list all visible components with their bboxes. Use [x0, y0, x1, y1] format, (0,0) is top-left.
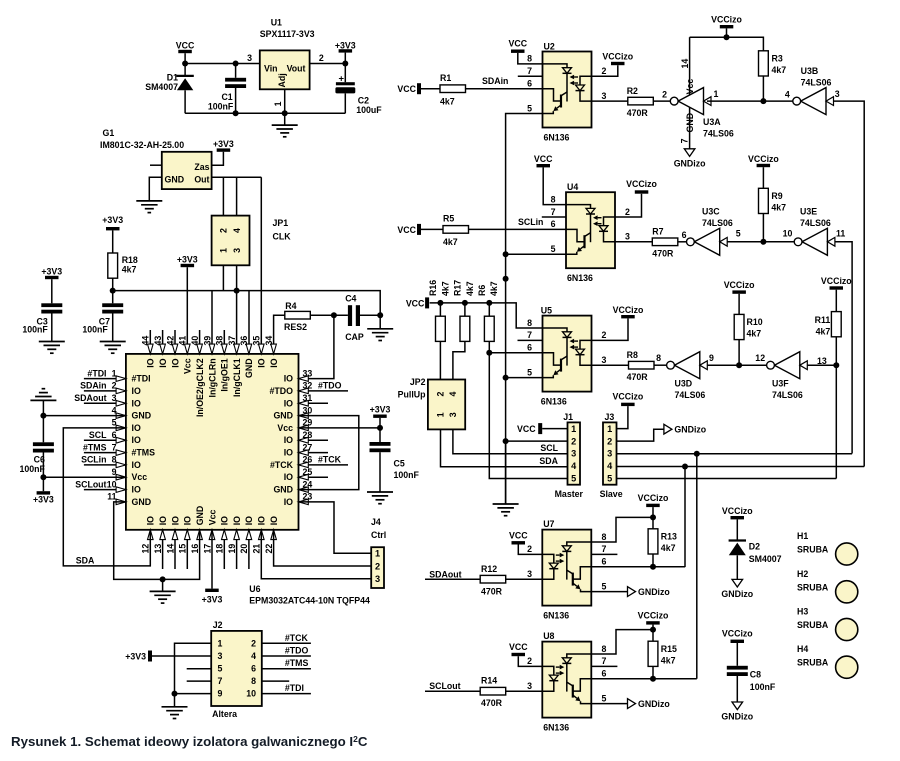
svg-text:19: 19: [227, 544, 237, 554]
svg-text:2: 2: [571, 436, 576, 446]
svg-text:R3: R3: [772, 54, 783, 64]
pin 12 U6 bottom: [148, 530, 154, 540]
svg-text:4k7: 4k7: [661, 655, 676, 665]
svg-text:8: 8: [527, 54, 532, 64]
svg-text:SPX1117-3V3: SPX1117-3V3: [260, 29, 315, 39]
svg-text:3: 3: [602, 355, 607, 365]
svg-text:13: 13: [817, 356, 827, 366]
svg-text:42: 42: [165, 336, 175, 346]
svg-text:1: 1: [714, 89, 719, 99]
wire U6 pin 9 Vcc to C6 bottom: [43, 476, 126, 478]
svg-text:H1: H1: [797, 531, 808, 541]
wire SDAout to R12: [425, 578, 480, 580]
GNDizo arrow at U8 pin 5: [628, 699, 636, 709]
svg-text:VCC: VCC: [509, 531, 528, 541]
svg-text:27: 27: [303, 442, 313, 452]
wire clock long line to U6 pin 35: [260, 177, 262, 354]
svg-text:24: 24: [303, 479, 313, 489]
svg-text:SRUBA: SRUBA: [797, 658, 829, 668]
svg-text:2: 2: [602, 66, 607, 76]
svg-text:1: 1: [375, 549, 380, 559]
svg-text:GND: GND: [132, 497, 152, 507]
pin 30 U6 right: [299, 413, 309, 419]
svg-text:R5: R5: [443, 214, 454, 224]
svg-text:2: 2: [112, 381, 117, 391]
wire R10 to node: [738, 340, 740, 366]
svg-text:31: 31: [303, 393, 313, 403]
svg-text:12: 12: [755, 353, 765, 363]
node J2 ground: [172, 691, 178, 697]
pin 10 U6 left: [84, 489, 126, 491]
svg-text:32: 32: [303, 381, 313, 391]
svg-text:100nF: 100nF: [394, 470, 420, 480]
svg-text:20: 20: [239, 544, 249, 554]
pin 28 U6 right: [299, 439, 329, 441]
wire R12 to U7 pin 3: [506, 578, 543, 580]
svg-text:25: 25: [303, 467, 313, 477]
svg-text:R15: R15: [661, 644, 677, 654]
svg-text:GND: GND: [244, 358, 254, 378]
svg-text:SCLin: SCLin: [518, 217, 543, 227]
svg-text:7: 7: [680, 138, 690, 143]
svg-text:GNDizo: GNDizo: [721, 589, 753, 599]
svg-text:IO: IO: [170, 358, 180, 367]
svg-text:1: 1: [436, 412, 446, 417]
svg-text:Vcc: Vcc: [132, 472, 148, 482]
svg-text:21: 21: [252, 544, 262, 554]
resistor R3 4k7: [759, 51, 769, 76]
svg-text:VCCizo: VCCizo: [722, 629, 753, 639]
svg-text:R16: R16: [428, 280, 438, 296]
G1 GND pin wire: [149, 177, 162, 201]
svg-text:4k7: 4k7: [816, 327, 831, 337]
pin 22 U6 bottom: [271, 530, 277, 540]
svg-text:VCCizo: VCCizo: [638, 493, 669, 503]
wire R7 to U3C output: [678, 241, 687, 243]
node C6 top: [40, 413, 46, 419]
svg-text:GND: GND: [273, 411, 293, 421]
wire U3C input to U3E output: [727, 241, 794, 243]
svg-text:VCCizo: VCCizo: [711, 14, 742, 24]
pin 29 U6 right: [299, 425, 309, 431]
svg-text:74LS06: 74LS06: [800, 218, 831, 228]
svg-text:IO: IO: [158, 358, 168, 367]
svg-text:IO: IO: [257, 516, 267, 525]
svg-text:#TMS: #TMS: [285, 658, 309, 668]
wire U5 pin 3 to R8: [592, 364, 629, 366]
svg-text:7: 7: [602, 544, 607, 554]
capacitor C2 100uF electrolytic: [344, 64, 346, 83]
svg-text:VCC: VCC: [534, 154, 553, 164]
capacitor C5 100nF: [370, 442, 391, 446]
svg-text:8: 8: [602, 532, 607, 542]
wire R8 to U3D output: [654, 364, 667, 366]
pin 27 U6 right: [299, 452, 329, 454]
diode D1 SM4007: [184, 64, 186, 76]
pin 43 U6 top: [162, 330, 164, 354]
svg-text:4k7: 4k7: [747, 329, 762, 339]
svg-text:30: 30: [303, 405, 313, 415]
svg-text:IO: IO: [232, 516, 242, 525]
resistor R15 4k7: [648, 641, 658, 666]
svg-text:+3V3: +3V3: [41, 267, 62, 277]
wire G1 Zas to +3V3: [212, 152, 224, 165]
wire U5 pin 2 to VCCizo: [592, 318, 629, 340]
pin 35 U6 top: [259, 344, 265, 354]
svg-text:5: 5: [602, 693, 607, 703]
svg-text:GND: GND: [132, 411, 152, 421]
svg-text:Vcc: Vcc: [277, 423, 293, 433]
svg-text:SCLin: SCLin: [81, 455, 106, 465]
svg-text:CAP: CAP: [345, 332, 364, 342]
svg-text:VCCizo: VCCizo: [626, 179, 657, 189]
svg-text:3: 3: [375, 574, 380, 584]
wire R15 to U8 pin 6 node: [652, 666, 654, 678]
wire U8 pin 7 stub: [591, 665, 617, 667]
wire U2 pin 5 to isolated-side ground line: [506, 114, 543, 505]
wire J3 pin 3 to U3E line: [617, 453, 853, 455]
wire R11 to node: [835, 337, 837, 365]
wire VCCizo rail to R3: [690, 37, 764, 51]
pin 25 U6 right: [299, 476, 329, 478]
resistor R11 4k7: [831, 312, 841, 337]
svg-text:GNDizo: GNDizo: [674, 424, 706, 434]
svg-text:Vcc: Vcc: [183, 358, 193, 374]
svg-text:#TDO: #TDO: [285, 646, 309, 656]
capacitor C3 100nF: [41, 303, 62, 307]
svg-text:100uF: 100uF: [356, 105, 382, 115]
svg-text:VCCizo: VCCizo: [748, 154, 779, 164]
svg-text:R18: R18: [122, 255, 138, 265]
svg-text:SM4007: SM4007: [145, 82, 178, 92]
svg-text:R6: R6: [477, 285, 487, 296]
svg-text:IO: IO: [284, 448, 293, 458]
wire U2 pin 7 stub: [518, 75, 543, 77]
svg-text:C2: C2: [358, 95, 369, 105]
wire VCC to J1 pin 1: [542, 428, 567, 430]
GNDizo arrow under C8: [732, 702, 743, 710]
ground symbol under J2: [174, 694, 176, 707]
wire J3 pin 5 to U3F line: [617, 478, 837, 480]
svg-text:9: 9: [709, 353, 714, 363]
svg-text:3: 3: [625, 232, 630, 242]
svg-text:+3V3: +3V3: [213, 139, 234, 149]
wire isolated ground line to ground symbol: [505, 441, 507, 504]
svg-text:100nF: 100nF: [19, 464, 45, 474]
wire SCLout to R14: [425, 690, 480, 692]
svg-text:7: 7: [112, 442, 117, 452]
svg-text:470R: 470R: [652, 249, 674, 259]
svg-text:#TCK: #TCK: [285, 633, 309, 643]
svg-text:J1: J1: [563, 412, 573, 422]
svg-text:1: 1: [219, 248, 229, 253]
node J3 pin 4 branch: [682, 464, 688, 470]
svg-text:23: 23: [303, 492, 313, 502]
svg-text:D2: D2: [749, 542, 760, 552]
wire U6 pin 29 Vcc to C5 node: [299, 427, 381, 429]
pin 34 U6 top: [271, 344, 277, 354]
svg-text:R4: R4: [285, 301, 296, 311]
svg-text:+3V3: +3V3: [177, 254, 198, 264]
wire U7 pin 5 to GNDizo: [591, 591, 627, 593]
svg-text:29: 29: [303, 418, 313, 428]
svg-text:#TMS: #TMS: [83, 442, 107, 452]
svg-text:IO: IO: [284, 398, 293, 408]
svg-text:3: 3: [218, 651, 223, 661]
svg-text:74LS06: 74LS06: [703, 129, 734, 139]
svg-text:35: 35: [252, 336, 262, 346]
ground rail under U1: [185, 112, 345, 114]
svg-text:28: 28: [303, 430, 313, 440]
svg-text:IO: IO: [269, 358, 279, 367]
wire U8 pin 5 to GNDizo: [591, 703, 627, 705]
svg-text:#TDI: #TDI: [132, 374, 151, 384]
wire U3D input to U3F output: [707, 364, 766, 366]
svg-text:U7: U7: [543, 519, 554, 529]
svg-text:#TDI: #TDI: [285, 683, 304, 693]
svg-text:Altera: Altera: [212, 709, 237, 719]
resistor R13 4k7: [648, 529, 658, 554]
svg-text:2: 2: [219, 228, 229, 233]
wire J2 pin 6 #TMS: [262, 668, 311, 670]
pin 23 U6 right: [299, 499, 309, 505]
svg-text:4k7: 4k7: [771, 203, 786, 213]
wire U5 pin 5 to ground line: [506, 377, 543, 379]
svg-text:6N136: 6N136: [544, 133, 570, 143]
node U4 pin 5: [503, 251, 509, 257]
pin 40 U6 top: [199, 330, 201, 354]
svg-text:3: 3: [527, 681, 532, 691]
wire U6 pin 11 GND down to ground row: [114, 502, 200, 580]
wire U2 pin 3 to R2: [592, 100, 628, 102]
svg-text:2: 2: [527, 544, 532, 554]
svg-text:33: 33: [303, 368, 313, 378]
svg-text:VCCizo: VCCizo: [722, 506, 753, 516]
svg-text:R2: R2: [627, 86, 638, 96]
pin 15 U6 bottom: [186, 530, 188, 569]
pin 6 U6 left: [84, 439, 126, 441]
node J3 pin 3 branch: [694, 451, 700, 457]
node Vcc/C5: [377, 425, 383, 431]
inverter U3F 74LS06: [774, 352, 799, 379]
svg-text:4: 4: [448, 391, 458, 396]
GNDizo arrow at U7 pin 5: [628, 587, 636, 597]
svg-text:IO: IO: [132, 435, 141, 445]
svg-text:R13: R13: [661, 532, 677, 542]
svg-text:SRUBA: SRUBA: [797, 620, 829, 630]
svg-text:4: 4: [251, 651, 256, 661]
ground symbol under U6: [162, 579, 164, 591]
svg-text:2: 2: [662, 90, 667, 100]
svg-text:C4: C4: [345, 294, 356, 304]
svg-text:IO: IO: [158, 516, 168, 525]
ground symbol under G1: [136, 200, 162, 202]
svg-text:4: 4: [112, 405, 117, 415]
svg-text:R12: R12: [481, 564, 497, 574]
wire U2 pin 8 to VCC: [518, 53, 543, 64]
svg-text:#TCK: #TCK: [318, 455, 342, 465]
node R3/U3A/U3B: [760, 98, 766, 104]
node C1 top: [233, 61, 239, 67]
resistor R1 4k7: [421, 88, 440, 90]
svg-text:470R: 470R: [481, 587, 503, 597]
ground symbol under J1 area: [493, 503, 519, 505]
wire R5 to U4 pin 6 SCLin: [469, 228, 567, 230]
wire R6 to U5 pin 6 and J1 pin 5: [489, 341, 567, 478]
pin 7 U6 left: [84, 452, 126, 454]
ground symbol under U1: [284, 113, 286, 125]
node U8 pin 6: [650, 676, 656, 682]
wire U6 pin 30 GND to pin 24: [299, 416, 359, 490]
svg-text:Adj: Adj: [277, 73, 287, 87]
svg-text:13: 13: [153, 544, 163, 554]
svg-text:1: 1: [273, 101, 283, 106]
node R10/U3D/U3F: [736, 362, 742, 368]
svg-text:GNDizo: GNDizo: [638, 699, 670, 709]
svg-text:IO: IO: [284, 435, 293, 445]
svg-text:U2: U2: [544, 42, 555, 52]
wire U3F input to R11 and J3 pin 5 line: [807, 365, 836, 478]
svg-text:U3F: U3F: [772, 379, 789, 389]
svg-text:IO: IO: [244, 516, 254, 525]
wire J1 pin 2 to ground line: [506, 440, 568, 442]
svg-text:2: 2: [375, 561, 380, 571]
inverter U3E 74LS06: [802, 228, 827, 255]
svg-text:Vcc: Vcc: [207, 510, 217, 526]
svg-text:H4: H4: [797, 644, 808, 654]
svg-text:3: 3: [571, 449, 576, 459]
capacitor C8 100nF: [727, 666, 748, 670]
wire R17 to JP2 pin 4: [453, 341, 465, 379]
wire J2 pin 5 stub: [187, 668, 212, 670]
svg-text:34: 34: [264, 336, 274, 346]
svg-text:14: 14: [165, 544, 175, 554]
U3A Vcc pin 14: [689, 37, 691, 95]
svg-text:C5: C5: [394, 459, 405, 469]
svg-text:4: 4: [232, 228, 242, 233]
pin 13 U6 bottom: [162, 530, 164, 569]
svg-text:SCL: SCL: [89, 430, 107, 440]
svg-text:4: 4: [607, 461, 613, 471]
pin 41 U6 top: [185, 344, 191, 354]
node U5 pin 5: [503, 375, 509, 381]
wire U6 pin 4 GND to C6: [43, 415, 126, 417]
svg-text:#TMS: #TMS: [132, 448, 156, 458]
svg-text:2: 2: [251, 638, 256, 648]
node rail R17: [462, 300, 468, 306]
ground symbol above C6: [30, 399, 56, 401]
svg-text:C8: C8: [750, 670, 761, 680]
svg-text:R17: R17: [453, 280, 463, 296]
node R18/C7: [110, 288, 116, 294]
svg-text:+3V3: +3V3: [335, 41, 356, 51]
svg-text:9: 9: [112, 467, 117, 477]
wire U7 pin 2 to VCC: [518, 545, 542, 555]
svg-text:IO: IO: [132, 460, 141, 470]
svg-text:IO: IO: [132, 386, 141, 396]
svg-text:IO: IO: [284, 497, 293, 507]
svg-text:3: 3: [607, 449, 612, 459]
svg-text:#TDO: #TDO: [270, 386, 294, 396]
wire U7 pin 6 to J3 pin 4 line: [591, 566, 685, 568]
svg-text:10: 10: [246, 689, 256, 699]
svg-text:IO: IO: [257, 358, 267, 367]
pin 42 U6 top: [174, 330, 176, 354]
wire VCC rail to U5 pin 8: [430, 303, 543, 328]
wire U3A input to U3B output: [707, 100, 793, 102]
pin 1 U6 left: [84, 378, 126, 380]
resistor R12 470R: [480, 575, 506, 583]
svg-text:4k7: 4k7: [122, 265, 137, 275]
svg-text:5: 5: [112, 418, 117, 428]
svg-text:J4: J4: [371, 517, 381, 527]
svg-text:SDA: SDA: [539, 456, 558, 466]
svg-text:SDA: SDA: [76, 556, 95, 566]
resistor R16 4k7: [439, 303, 441, 316]
wire U4 pin 3 to R7: [615, 241, 652, 243]
svg-text:4k7: 4k7: [489, 281, 499, 296]
wire U3B input to J3 pin 4 line: [834, 101, 865, 466]
capacitor C7 100nF: [112, 291, 114, 304]
pin 5 U6 left: [116, 425, 126, 431]
svg-text:GNDizo: GNDizo: [638, 587, 670, 597]
pin 14 U6 bottom: [174, 530, 176, 569]
resistor R17 4k7: [464, 303, 466, 316]
svg-text:RES2: RES2: [284, 322, 307, 332]
svg-text:H3: H3: [797, 607, 808, 617]
svg-text:IO: IO: [269, 516, 279, 525]
svg-text:1: 1: [571, 424, 576, 434]
svg-text:17: 17: [202, 544, 212, 554]
svg-text:VCCizo: VCCizo: [821, 276, 852, 286]
node C1 bottom: [233, 110, 239, 116]
wire R9 to node: [762, 214, 764, 242]
wire VCC to Vin rail: [185, 63, 260, 65]
wire R1 to U2 pin 6 SDAin: [466, 88, 543, 90]
wire J2 pin 1 to ground: [175, 643, 212, 693]
svg-text:+3V3: +3V3: [102, 215, 123, 225]
svg-text:44: 44: [141, 336, 151, 346]
svg-text:74LS06: 74LS06: [675, 390, 706, 400]
svg-text:U3A: U3A: [703, 117, 721, 127]
svg-text:4k7: 4k7: [440, 281, 450, 296]
svg-text:8: 8: [551, 194, 556, 204]
capacitor C1 100nF: [235, 64, 237, 78]
diode D2 SM4007: [729, 539, 746, 541]
wire R4 to C4: [310, 314, 348, 316]
node R9/U3C/U3E: [760, 239, 766, 245]
svg-text:14: 14: [680, 59, 690, 69]
node R6/U5 pin6: [486, 350, 492, 356]
svg-text:6: 6: [527, 343, 532, 353]
inverter U3D 74LS06: [674, 352, 699, 379]
svg-text:5: 5: [218, 664, 223, 674]
wire R16 to JP2 pin 2: [439, 341, 441, 379]
capacitor C6 100nF: [42, 400, 44, 442]
svg-text:26: 26: [303, 455, 313, 465]
wire J2 pin 4 #TDO: [262, 655, 311, 657]
svg-text:J3: J3: [605, 412, 615, 422]
svg-text:3: 3: [448, 412, 458, 417]
svg-text:11: 11: [836, 229, 845, 239]
svg-text:VCC: VCC: [397, 84, 416, 94]
node VCCizo rail: [724, 34, 730, 40]
svg-text:41: 41: [178, 336, 188, 346]
svg-text:6N136: 6N136: [567, 273, 593, 283]
svg-text:8: 8: [112, 455, 117, 465]
svg-text:Ctrl: Ctrl: [371, 530, 386, 540]
svg-text:GND: GND: [195, 506, 205, 526]
